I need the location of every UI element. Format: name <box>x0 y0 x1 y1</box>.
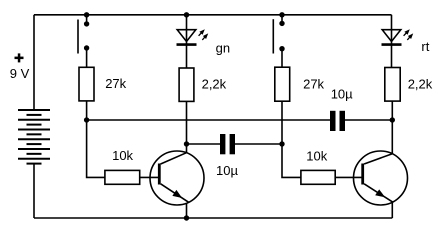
svg-text:10µ: 10µ <box>331 87 353 102</box>
svg-text:27k: 27k <box>303 77 324 92</box>
svg-text:rt: rt <box>421 39 429 54</box>
svg-text:27k: 27k <box>105 76 126 91</box>
svg-text:gn: gn <box>216 40 230 55</box>
svg-text:9 V: 9 V <box>10 66 30 81</box>
svg-text:10µ: 10µ <box>216 163 238 178</box>
svg-text:10k: 10k <box>112 148 133 163</box>
svg-text:2,2k: 2,2k <box>408 77 433 92</box>
svg-text:10k: 10k <box>306 149 327 164</box>
svg-text:2,2k: 2,2k <box>202 77 227 92</box>
